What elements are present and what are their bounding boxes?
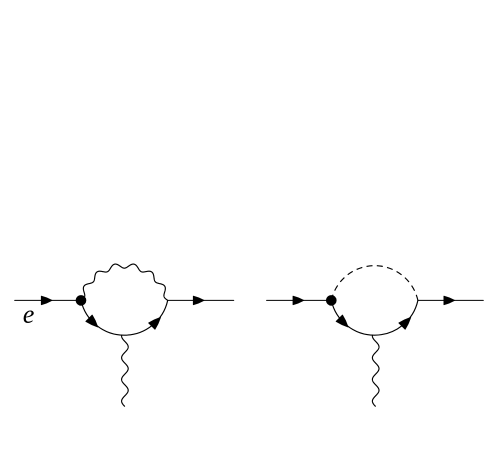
external photon tail (left diagram) bbox=[122, 335, 129, 406]
wire: outgoing electron line (right diagram) bbox=[418, 299, 483, 301]
wire: incoming electron line (right diagram) bbox=[267, 299, 332, 301]
arrow: incoming line (right diagram) bbox=[293, 296, 304, 305]
vertex dot (right diagram) bbox=[326, 296, 336, 306]
wire: incoming electron line (left diagram) bbox=[15, 299, 77, 301]
photon loop arc (wavy, left diagram) bbox=[81, 264, 168, 300]
wire: outgoing electron line (left diagram) bbox=[168, 299, 234, 301]
scalar loop arc (dashed, right diagram) bbox=[331, 266, 418, 301]
arrow: fermion arc right (left diagram) bbox=[149, 317, 161, 329]
label e (electron) bbox=[24, 311, 34, 324]
arrow: fermion arc left (right diagram) bbox=[336, 315, 348, 327]
fermion loop arc (left diagram) bbox=[81, 300, 168, 335]
arrow: incoming line (left diagram) bbox=[41, 296, 52, 305]
fermion loop arc (right diagram) bbox=[331, 300, 418, 335]
arrow: outgoing line (right diagram) bbox=[444, 296, 455, 305]
external photon tail (right diagram) bbox=[372, 335, 379, 406]
arrow: outgoing line (left diagram) bbox=[193, 296, 204, 305]
arrow: fermion arc right (right diagram) bbox=[399, 317, 411, 329]
arrow: fermion arc left (left diagram) bbox=[86, 315, 98, 327]
vertex dot (left diagram) bbox=[76, 296, 86, 306]
